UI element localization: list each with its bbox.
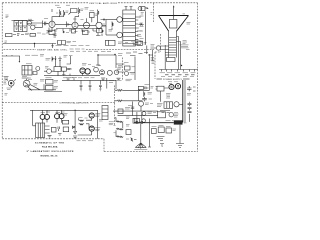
border left dashed <box>1 3 3 139</box>
svg-text:POWER SUPPLY: POWER SUPPLY <box>163 79 182 81</box>
neck left taps <box>161 46 169 55</box>
labels above rectifiers <box>168 82 178 84</box>
electrode marks V1 <box>51 20 54 25</box>
switch S2 contacts <box>25 79 29 86</box>
marks right of V23 <box>148 112 157 114</box>
rectifier V17 <box>175 84 180 89</box>
tube V13 <box>85 69 90 74</box>
label 7 left of funnel <box>151 13 153 15</box>
transistor V1a <box>27 21 31 25</box>
junction timing 2 <box>97 54 98 55</box>
bias box right of U1 <box>137 41 142 45</box>
section divider sweep dashed right <box>86 48 154 50</box>
blanking caps row <box>138 86 148 89</box>
hv cap box <box>126 130 131 135</box>
text below can <box>109 122 114 125</box>
bleeder resistor marks <box>160 111 170 113</box>
marks rail x97.7 <box>99 120 103 122</box>
label CRT right <box>187 23 191 25</box>
grid network V1 <box>47 27 53 32</box>
wire sweep output riser <box>130 57 136 81</box>
tube V7 <box>138 7 142 11</box>
tube V23b <box>142 119 146 123</box>
wire ps left <box>156 87 169 90</box>
capacitor C3 <box>45 22 49 26</box>
label marks neck right <box>183 41 188 44</box>
border top dashed right <box>118 2 198 4</box>
CRT neck <box>169 31 177 57</box>
marks right of V20 <box>145 103 153 105</box>
gain boxes cluster <box>46 80 54 91</box>
neck right taps <box>176 37 180 42</box>
pin ticks U1 right <box>135 17 139 43</box>
boxes above divider <box>58 40 116 45</box>
label marks jack row <box>25 33 49 35</box>
tube V20 <box>139 101 144 106</box>
intensity focus pot row <box>159 70 198 72</box>
CRT plate box <box>169 20 177 29</box>
small box right of T1 <box>51 127 56 132</box>
lv box left b <box>63 127 68 132</box>
resistor right of U1 <box>139 24 144 26</box>
socket pin marks <box>134 148 147 150</box>
ac line wire <box>3 44 56 49</box>
wire V7 network <box>145 8 147 45</box>
resistor R7 <box>63 31 97 33</box>
ps small boxes above heater <box>133 118 139 123</box>
tube V14c <box>107 70 112 75</box>
marks near V14 <box>92 66 101 67</box>
resistor marks ps bottom <box>157 137 165 141</box>
marks near zigs <box>79 117 88 120</box>
caps column right of bus <box>188 102 192 113</box>
socket stem b <box>141 112 143 121</box>
electrode V12 <box>81 70 83 72</box>
power transformer T1 <box>36 123 45 138</box>
electrode marks V28 V29 <box>91 115 93 130</box>
ps lower box <box>157 112 165 118</box>
border bottom-right dashed <box>104 151 198 153</box>
resistor R3 <box>63 10 64 17</box>
resistor R17 vertical <box>144 91 145 97</box>
vertical output block U1 <box>123 10 136 46</box>
CRT base <box>167 58 176 62</box>
junction dot anode <box>173 15 175 17</box>
tube V29 <box>89 126 94 131</box>
border step vertical dashed <box>103 139 105 152</box>
label text block top right <box>180 45 190 50</box>
wire lower horiz <box>28 84 62 91</box>
wire plate V1 <box>52 16 72 24</box>
switch S1 hub <box>10 82 12 84</box>
wire rect drops <box>43 110 62 123</box>
tube V11 <box>47 69 52 74</box>
tube V12 <box>80 68 85 73</box>
label marks hv right <box>187 94 191 96</box>
parts row above divider left <box>56 45 90 47</box>
marks above divider mid <box>118 42 128 44</box>
grid box under V1 <box>49 30 55 34</box>
resistor zig b <box>79 124 84 125</box>
comp below rail <box>131 102 134 116</box>
label marks V28 <box>95 114 100 131</box>
gain box R5 <box>90 13 95 18</box>
resistor R9b vertical <box>102 29 103 36</box>
arrowhead sync <box>19 61 21 63</box>
heater rail wire <box>134 122 174 124</box>
resistor vert sweep left <box>51 57 54 62</box>
wire into U1 lower <box>106 34 117 36</box>
svg-text:6.3: 6.3 <box>184 122 186 124</box>
choke boxes lv <box>164 102 173 109</box>
resistor R2 <box>60 10 61 17</box>
sync amp box <box>22 66 32 76</box>
pot wiper marks row2 <box>165 74 195 76</box>
wire blanking down <box>138 90 140 101</box>
rectifier tube V27 <box>59 114 64 119</box>
marks below S1 <box>5 88 12 95</box>
tick above right slant <box>183 13 186 15</box>
ground marks below T1 area <box>48 134 62 139</box>
heater dark box <box>174 120 183 124</box>
filter caps right of bus <box>187 86 196 91</box>
divider value marks <box>70 48 85 50</box>
tube V4 <box>96 22 102 28</box>
electrode marks V2 <box>74 24 77 26</box>
wire border to V9 <box>151 48 157 61</box>
vertical divider amp-crt dashed <box>153 3 155 22</box>
shunt cap Cb <box>89 80 92 91</box>
input attenuator cluster A1 <box>12 21 34 32</box>
riser to horizontal plates <box>149 54 151 90</box>
svg-text:3" LABORATORY OSCILLOSCOPE: 3" LABORATORY OSCILLOSCOPE <box>27 150 74 153</box>
resistor row right <box>131 41 142 45</box>
marks right of U1 lower <box>137 31 142 36</box>
main rail bottom section <box>30 110 98 126</box>
label marks V1 <box>54 30 58 32</box>
junction ac line <box>34 43 35 44</box>
sheet row label marks left margin <box>5 15 9 42</box>
label marks R5 <box>90 11 98 16</box>
switch S1 spokes <box>7 79 16 88</box>
diode bowtie D1 <box>73 126 76 131</box>
sweep bus wire <box>44 73 100 75</box>
input jack row boxes <box>5 33 56 37</box>
resistor R4 <box>79 8 80 15</box>
neck drop wires right <box>179 37 181 70</box>
tube V6 <box>117 32 123 38</box>
sync text row <box>25 55 44 57</box>
squiggle R18 <box>131 138 137 141</box>
cathode resistor marks <box>56 29 102 32</box>
triangle mark D1b <box>74 131 77 134</box>
label marks input network <box>101 24 113 31</box>
junction timing <box>114 54 115 55</box>
capacitor C1 <box>15 23 18 26</box>
tube V14d <box>114 70 118 74</box>
wire bus turn down <box>115 80 117 89</box>
plate tick V1 top <box>51 9 53 12</box>
resistor R1 <box>15 28 25 29</box>
small comp top mid <box>117 78 121 79</box>
electrodes V16 V17 <box>170 85 179 87</box>
selector switch S2 <box>23 80 30 87</box>
svg-text:RCA WO-88A: RCA WO-88A <box>42 145 58 148</box>
timing loop wire <box>96 55 116 68</box>
transformer secondary marks <box>45 126 50 133</box>
labels under V12 V13 <box>78 77 95 79</box>
marks mid ps <box>166 94 171 99</box>
tube V3 <box>83 22 89 28</box>
label C3 <box>44 18 48 20</box>
tube V1 <box>49 21 55 27</box>
border bottom-left dashed <box>2 138 104 140</box>
marks left of choke <box>157 104 163 107</box>
label marks U1 pins <box>140 16 144 42</box>
marks near divider resistors <box>114 117 130 139</box>
anode arrowhead <box>173 6 175 8</box>
marks around gain boxes <box>40 78 58 88</box>
selector switch S1 <box>8 80 14 86</box>
resistors above U1 <box>125 7 133 10</box>
screen box R4b <box>69 9 78 15</box>
divider differential dashed left <box>2 102 58 104</box>
wire screen bus <box>78 16 97 25</box>
marks below bus <box>67 78 78 80</box>
resistor zig a <box>79 118 84 121</box>
svg-text:VERTICAL AMPLIFIER: VERTICAL AMPLIFIER <box>89 2 117 5</box>
section divider sweep dashed left <box>4 48 37 50</box>
marks right of V22 <box>174 113 179 118</box>
text row sweep mid <box>46 56 73 61</box>
svg-text:SWEEP GEN. AND SYNC.: SWEEP GEN. AND SYNC. <box>37 49 68 52</box>
wires lower mid rails <box>113 111 158 116</box>
neck drop wire left <box>164 45 166 70</box>
vertical wire x70 <box>67 56 71 64</box>
tube V2 <box>72 22 78 28</box>
dashed vertical divider mid-bottom <box>114 85 116 125</box>
tube V14b <box>100 70 105 75</box>
divider differential dashed right <box>90 102 115 104</box>
transistor V1b <box>31 25 35 29</box>
socket stem a <box>136 112 138 121</box>
ground below D1 <box>73 136 77 139</box>
limiter box A2 <box>141 7 145 11</box>
horiz amp box <box>125 66 131 70</box>
socket pin circle b <box>141 121 143 123</box>
high voltage bus line2 <box>184 80 186 123</box>
rectifier tube V25 <box>45 114 50 119</box>
ps boxes row bottom <box>152 127 172 134</box>
pot labels row3 <box>161 75 194 77</box>
arrow out A2 <box>147 7 149 9</box>
tube V14 <box>94 67 99 72</box>
wire ps right drop <box>176 125 184 148</box>
grid box under V3 <box>83 30 89 34</box>
marks top mid section <box>109 79 132 82</box>
sync diode V11a <box>36 67 40 71</box>
resistor R6 <box>98 10 99 16</box>
wire plate V2 <box>75 15 79 22</box>
marks near V15b <box>117 63 135 75</box>
divider power supply line left <box>157 78 163 80</box>
capacitor C2 <box>20 23 22 24</box>
divider power supply line right <box>183 78 190 80</box>
resistor R9 vertical <box>112 22 113 30</box>
resistor zig wire upper <box>115 89 150 91</box>
marks near blanking <box>145 85 154 89</box>
cap right of T1 <box>58 127 59 132</box>
lv box left a <box>62 120 68 124</box>
vertical rail x106.8 <box>106 78 108 89</box>
marks right of box <box>67 41 77 43</box>
wire V15b left <box>116 64 125 72</box>
CRT funnel <box>159 16 189 32</box>
tube V15b <box>125 72 129 76</box>
marks beside bias box <box>144 43 147 44</box>
junction dot upper wire <box>139 90 140 91</box>
lead ps box down <box>160 91 162 102</box>
tube V22 <box>169 113 173 117</box>
boxes sweep range <box>54 67 66 72</box>
label sync block <box>26 63 32 65</box>
svg-text:DIFFERENTIAL AMPLIFIER: DIFFERENTIAL AMPLIFIER <box>60 102 89 105</box>
text B 10 100 <box>77 140 94 142</box>
marks right of R17 <box>148 93 153 100</box>
wire V20 <box>140 101 142 111</box>
rectifier V18 <box>174 102 179 107</box>
rail x75 <box>74 110 76 126</box>
capacitor C4 mid <box>67 22 71 28</box>
divider resistor Ra <box>115 118 124 123</box>
sync input rail <box>3 55 20 56</box>
label marks cathode <box>66 32 90 33</box>
arrow crt return <box>181 65 182 66</box>
coupling caps to U1 <box>101 19 107 35</box>
grid box under V2 <box>72 29 76 33</box>
drop with arrow <box>18 56 20 61</box>
wire S2 to cluster <box>28 85 40 91</box>
vertical divider crt section step <box>155 51 161 53</box>
ps input box <box>157 86 164 91</box>
crt socket fan <box>135 143 146 149</box>
label marks near A2 <box>139 13 144 18</box>
label marks right cluster <box>63 114 68 116</box>
tube V23 <box>142 112 146 116</box>
rectifier tube V24 <box>40 114 45 119</box>
small boxes sync <box>33 72 37 75</box>
junction dots rail <box>74 110 75 111</box>
rectifier V16 <box>169 84 174 89</box>
label marks above rectifiers <box>41 111 65 114</box>
tube V5 <box>117 17 123 23</box>
terminal marks border left <box>4 77 9 80</box>
wire V28 V29 <box>78 118 92 135</box>
drop from parts row <box>146 46 148 55</box>
svg-text:SCHEMATIC OF THE: SCHEMATIC OF THE <box>35 141 64 144</box>
label marks R2 R3 <box>55 5 89 19</box>
rail x97.7 <box>97 110 99 139</box>
rectifier tube V26 <box>55 114 60 119</box>
marks on diff bus <box>63 77 74 79</box>
label marks sync bottom <box>22 77 32 80</box>
vertical divider crt section upper <box>160 34 162 52</box>
pot row labels <box>160 72 196 74</box>
ground below V14b <box>101 78 105 80</box>
wire attenuator to V1 <box>32 21 50 28</box>
marks sweep to crt <box>126 52 153 56</box>
marks left of S1 <box>4 81 7 84</box>
marks left of divider <box>152 61 155 64</box>
marks right of box <box>125 106 132 110</box>
wire sweep mid <box>44 69 72 76</box>
shunt cap Ca <box>80 80 83 91</box>
high voltage bus line1 <box>182 80 184 123</box>
wire lv to bus <box>179 103 183 105</box>
grid cluster under V4 <box>96 29 102 36</box>
marks right of boxes <box>45 67 71 75</box>
border right dashed <box>197 3 199 152</box>
cap column bottom lead <box>189 114 191 122</box>
electrode V14b <box>101 71 103 73</box>
border top dashed <box>2 2 88 4</box>
marks left column crt <box>151 45 155 61</box>
shunt cap Cc <box>99 80 102 91</box>
astig tube V9 <box>156 46 160 50</box>
divider resistor Rc <box>116 130 123 137</box>
wire into U1 upper <box>106 19 117 21</box>
label marks R4 <box>81 9 84 11</box>
vertical divider crt section lower <box>154 52 156 79</box>
CRT grid rungs <box>169 38 177 56</box>
marks timing row <box>101 52 123 68</box>
diff amp bus <box>62 78 116 80</box>
divider row extra labels <box>70 50 98 52</box>
vertical divider dashed mid <box>122 58 124 81</box>
resistor zig wire lower <box>115 100 143 102</box>
svg-text:MODEL 88-15: MODEL 88-15 <box>41 155 59 157</box>
marks above S2 <box>22 78 38 85</box>
tall cap can box <box>102 106 108 120</box>
CRT anode lead <box>173 6 175 20</box>
cap below R17 <box>142 97 147 102</box>
label marks V12 <box>82 64 91 66</box>
label marks cluster A1 <box>28 19 37 25</box>
socket pin circle a <box>136 121 138 123</box>
small box mid low <box>118 109 123 114</box>
divider resistor Rb <box>116 123 123 130</box>
tube V28 <box>89 113 94 118</box>
vert wire x149 <box>148 119 151 148</box>
sweep range leads <box>55 56 61 67</box>
ground ps bottom <box>160 144 164 147</box>
text row above heater <box>166 119 174 121</box>
marks between ps boxes <box>152 126 177 131</box>
crt socket lead <box>140 124 142 144</box>
